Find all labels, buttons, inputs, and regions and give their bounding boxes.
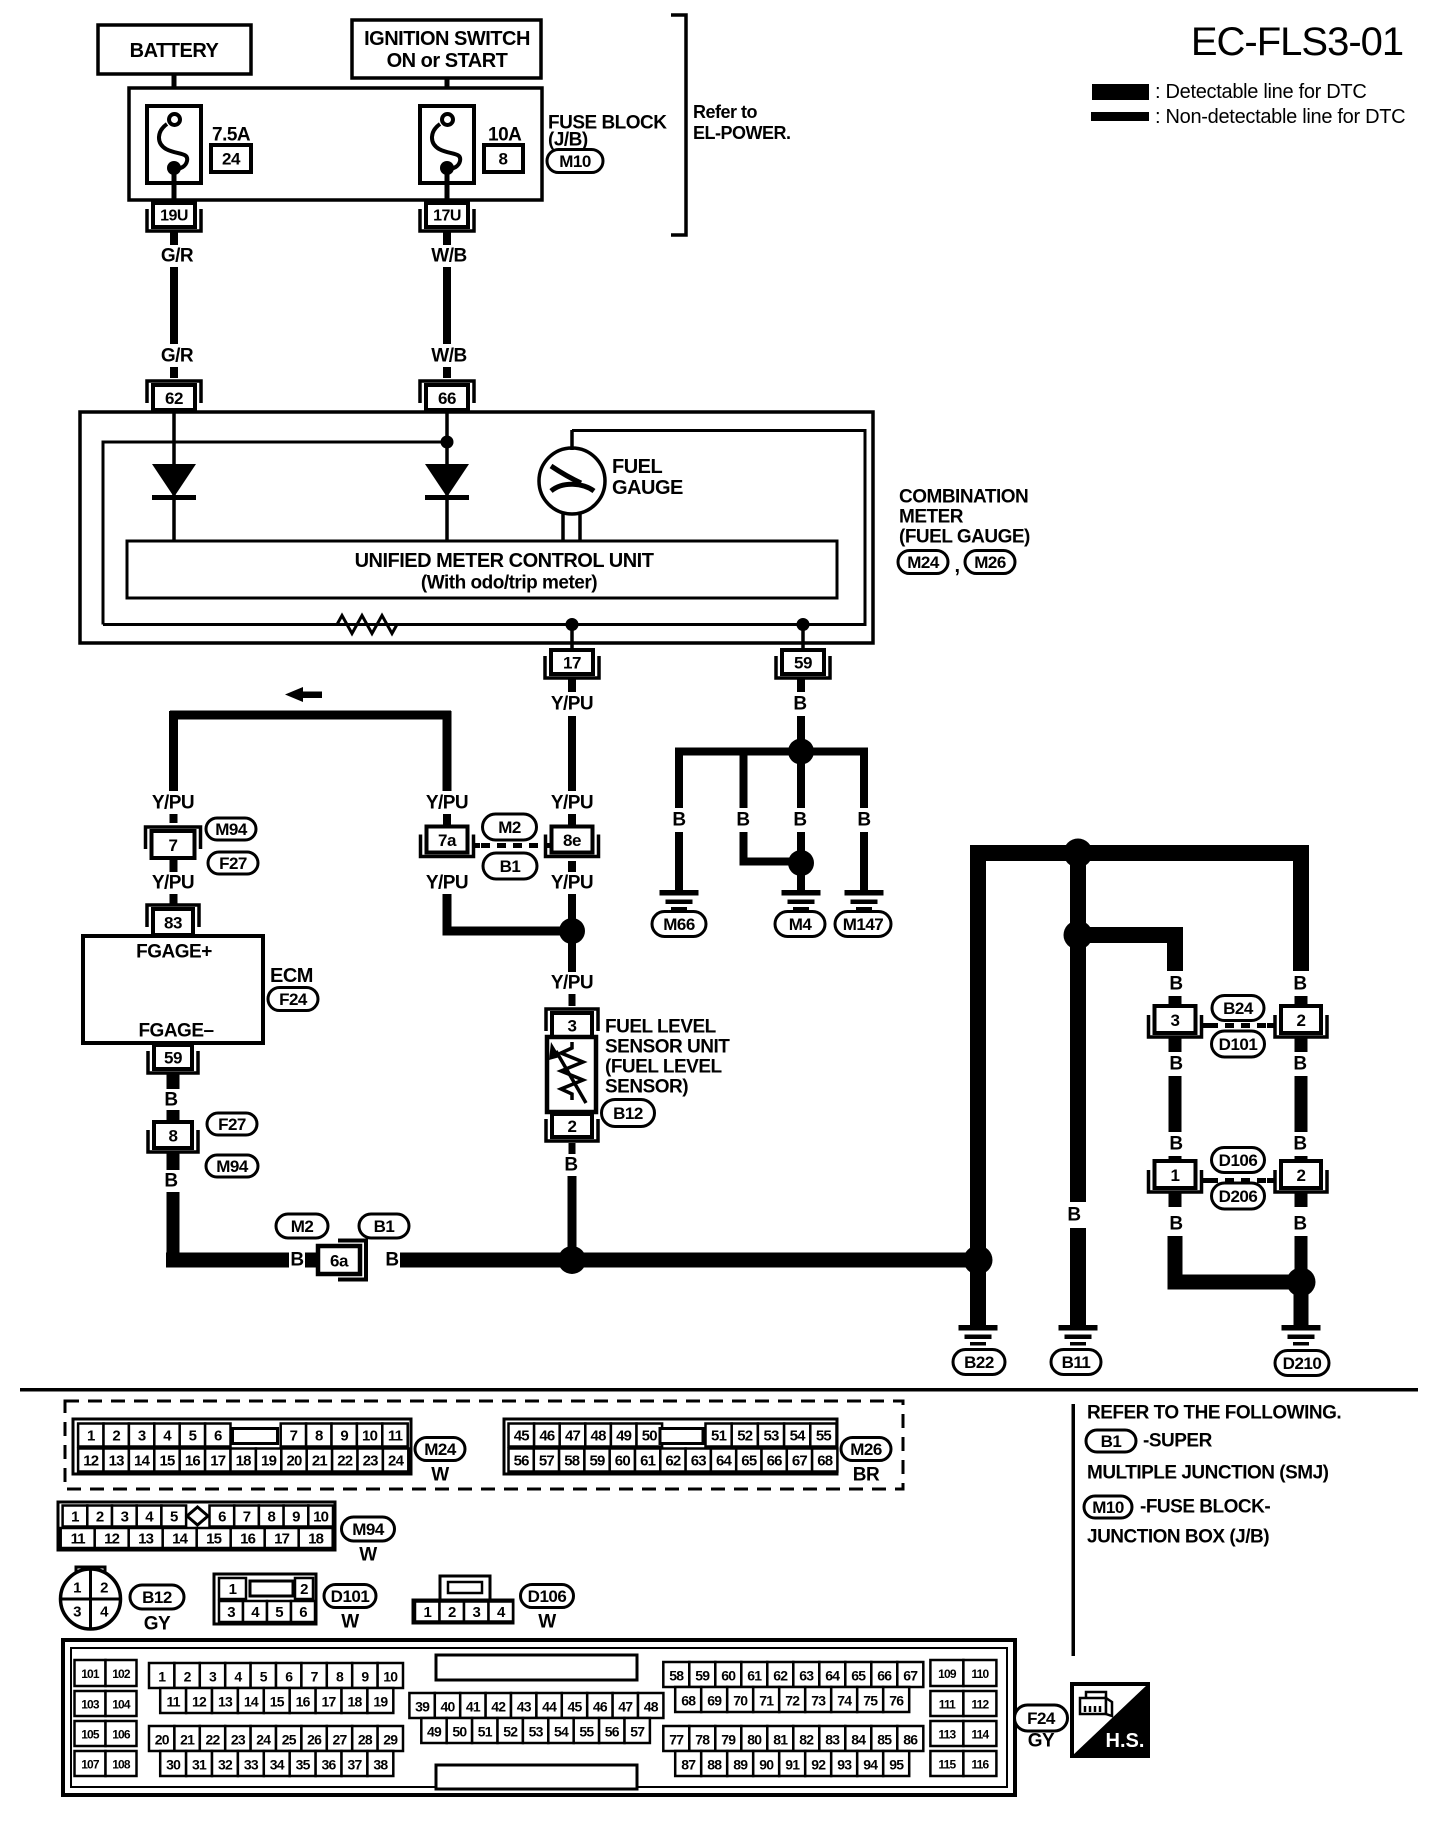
svg-text:18: 18 (308, 1531, 324, 1548)
svg-text:43: 43 (517, 1699, 532, 1715)
svg-text:M94: M94 (352, 1520, 385, 1539)
tab 3 to dashed (1202, 1023, 1209, 1028)
wire to pin 17 (570, 624, 574, 650)
svg-text:GY: GY (1028, 1731, 1055, 1752)
connector 19U (147, 209, 201, 231)
svg-text:75: 75 (863, 1693, 878, 1709)
svg-text:REFER TO THE FOLLOWING.: REFER TO THE FOLLOWING. (1087, 1403, 1341, 1424)
wire W/B to 66 (443, 367, 451, 378)
svg-text:60: 60 (721, 1668, 736, 1684)
pill M24 view (415, 1438, 465, 1461)
pin row 68-76 (675, 1687, 701, 1712)
svg-text:55: 55 (579, 1724, 594, 1740)
svg-text:B: B (1293, 974, 1306, 995)
svg-text:11: 11 (71, 1531, 86, 1548)
pill M94 view (342, 1517, 395, 1541)
svg-text:1: 1 (158, 1669, 166, 1685)
svg-text:37: 37 (347, 1757, 362, 1773)
svg-text:B: B (290, 1250, 303, 1271)
svg-text:10: 10 (313, 1509, 329, 1526)
svg-text:SENSOR): SENSOR) (605, 1077, 688, 1098)
pill M94 (conn 7) (206, 818, 256, 840)
svg-text:111: 111 (939, 1698, 956, 1712)
svg-text:16: 16 (296, 1694, 311, 1710)
diode D2 (425, 464, 469, 497)
svg-text:2: 2 (300, 1581, 308, 1598)
dashed link D106/D206 (1209, 1178, 1267, 1183)
pin row 77-86 (663, 1726, 689, 1751)
legend non-detectable line sample (1091, 112, 1149, 121)
svg-text:14: 14 (172, 1531, 189, 1548)
pin row 11-19 (160, 1688, 186, 1713)
svg-text:35: 35 (296, 1757, 311, 1773)
svg-text:33: 33 (244, 1757, 259, 1773)
pill M94 (conn 8) (206, 1155, 258, 1177)
svg-text:59: 59 (590, 1453, 606, 1470)
svg-text:8: 8 (315, 1428, 323, 1445)
svg-text:52: 52 (503, 1724, 518, 1740)
svg-text:1: 1 (229, 1581, 237, 1598)
svg-text:57: 57 (630, 1724, 645, 1740)
svg-text:Y/PU: Y/PU (551, 793, 593, 814)
svg-text:62: 62 (165, 389, 183, 408)
H.S. logo box (1072, 1684, 1148, 1756)
svg-text:107: 107 (81, 1758, 100, 1772)
fuel gauge stem (561, 512, 565, 541)
junction dot Y/PU (559, 918, 585, 944)
pill D101 view (324, 1585, 376, 1608)
svg-text:17: 17 (322, 1694, 337, 1710)
pill M66 (652, 912, 706, 937)
svg-text:IGNITION SWITCH: IGNITION SWITCH (364, 28, 530, 50)
svg-text:39: 39 (415, 1699, 430, 1715)
pill B22 (953, 1350, 1005, 1375)
svg-text:FUEL: FUEL (612, 456, 663, 478)
svg-text:41: 41 (466, 1699, 481, 1715)
svg-text:W: W (431, 1465, 449, 1486)
svg-text:B: B (164, 1171, 177, 1192)
wire down to 7a (443, 711, 452, 791)
wire 62 into meter / diode1 (172, 412, 176, 540)
svg-text:56: 56 (514, 1453, 530, 1470)
svg-text:19: 19 (261, 1453, 277, 1470)
svg-text:94: 94 (863, 1757, 878, 1773)
connector view D101 (214, 1574, 316, 1624)
svg-text:58: 58 (564, 1453, 580, 1470)
svg-text:70: 70 (733, 1693, 748, 1709)
wire battery to fuse (172, 74, 177, 114)
pill F27 (conn 7) (208, 852, 258, 874)
svg-text:B1: B1 (1101, 1432, 1122, 1451)
svg-text:13: 13 (138, 1531, 154, 1548)
wire G/R upper (170, 232, 178, 245)
svg-text:71: 71 (759, 1693, 774, 1709)
svg-text:11: 11 (388, 1428, 403, 1445)
svg-text:54: 54 (554, 1724, 569, 1740)
svg-text:B: B (793, 694, 806, 715)
connector view D106 (440, 1576, 490, 1600)
wire 59 down (797, 679, 805, 692)
svg-text:3: 3 (472, 1604, 480, 1621)
svg-text:10: 10 (383, 1669, 398, 1685)
connector 2 sensor (546, 1119, 598, 1141)
svg-text:92: 92 (811, 1757, 826, 1773)
svg-text:61: 61 (747, 1668, 762, 1684)
svg-text:59: 59 (695, 1668, 710, 1684)
svg-text:18: 18 (236, 1453, 252, 1470)
pill D210 (1275, 1351, 1329, 1376)
pill M26 (965, 551, 1015, 574)
svg-text:16: 16 (185, 1453, 201, 1470)
svg-text:-SUPER: -SUPER (1143, 1431, 1213, 1452)
svg-text:45: 45 (568, 1699, 583, 1715)
bent leg to M4 (740, 752, 748, 809)
svg-text:B11: B11 (1062, 1353, 1091, 1372)
pill D101 (1212, 1031, 1265, 1057)
wire 7 to 83 (170, 858, 178, 872)
svg-text:B: B (1169, 1054, 1182, 1075)
svg-text:5: 5 (275, 1604, 283, 1621)
svg-text:13: 13 (109, 1453, 125, 1470)
connector 3 (B24) (1149, 1015, 1202, 1037)
legend detectable line sample (1092, 84, 1149, 100)
connector 7 (146, 827, 201, 849)
svg-text:25: 25 (282, 1732, 297, 1748)
svg-text:ON or START: ON or START (387, 50, 508, 72)
svg-text:B: B (1067, 1205, 1080, 1226)
svg-text:B: B (164, 1090, 177, 1111)
wire to pin 59 (801, 624, 805, 650)
junction dot 2 (1064, 921, 1093, 950)
svg-text:B24: B24 (1223, 999, 1254, 1018)
svg-text:68: 68 (817, 1453, 833, 1470)
unified meter control unit box (127, 541, 837, 598)
svg-text:COMBINATION: COMBINATION (899, 487, 1028, 508)
svg-text:53: 53 (529, 1724, 544, 1740)
connector 2 (B24) (1275, 1015, 1327, 1037)
svg-text:3: 3 (209, 1669, 217, 1685)
svg-text:66: 66 (877, 1668, 892, 1684)
svg-text:67: 67 (903, 1668, 918, 1684)
M4 leg (797, 758, 805, 808)
refer bracket (671, 15, 686, 235)
pill M2 (6a) (276, 1214, 328, 1238)
svg-text:6a: 6a (330, 1252, 349, 1271)
connector 8e (546, 835, 599, 857)
svg-text:62: 62 (773, 1668, 788, 1684)
svg-text:B: B (385, 1250, 398, 1271)
wire W/B upper (443, 232, 451, 245)
svg-text:95: 95 (889, 1757, 904, 1773)
svg-text:B22: B22 (964, 1353, 994, 1372)
svg-text:105: 105 (81, 1728, 100, 1742)
svg-text:M26: M26 (850, 1440, 882, 1459)
wire junction down (568, 931, 576, 972)
svg-text:59: 59 (164, 1049, 182, 1068)
svg-text:F24: F24 (279, 990, 308, 1009)
svg-text:50: 50 (642, 1428, 658, 1445)
svg-text:24: 24 (222, 150, 241, 169)
wire G/R (170, 267, 178, 344)
pin row 1-10 (149, 1663, 174, 1688)
wire 8e down to junction (568, 861, 576, 872)
svg-text:M4: M4 (789, 915, 813, 934)
svg-text:17U: 17U (433, 208, 461, 225)
svg-text:46: 46 (593, 1699, 608, 1715)
svg-text:102: 102 (112, 1667, 131, 1681)
svg-text:Y/PU: Y/PU (426, 873, 468, 894)
B11 column (1070, 935, 1086, 1202)
svg-text:77: 77 (669, 1732, 684, 1748)
svg-text:44: 44 (542, 1699, 557, 1715)
svg-text:JUNCTION BOX (J/B): JUNCTION BOX (J/B) (1087, 1527, 1269, 1548)
svg-text:2: 2 (448, 1604, 456, 1621)
wire ignition to fuse (445, 78, 450, 114)
dashed box (65, 1401, 903, 1489)
connector 83 (147, 905, 199, 927)
svg-text:14: 14 (134, 1453, 151, 1470)
svg-text:17: 17 (274, 1531, 290, 1548)
svg-text:38: 38 (373, 1757, 388, 1773)
svg-text:3: 3 (568, 1017, 577, 1036)
svg-text:64: 64 (825, 1668, 840, 1684)
svg-text:63: 63 (799, 1668, 814, 1684)
svg-text:63: 63 (691, 1453, 707, 1470)
svg-text:10A: 10A (488, 125, 522, 146)
branch to 1175 (1078, 927, 1183, 943)
svg-text:6: 6 (285, 1669, 293, 1685)
tab 1 to dashed (1202, 1178, 1209, 1183)
svg-text:B: B (857, 810, 870, 831)
svg-text:D101: D101 (1219, 1035, 1258, 1054)
svg-text:2: 2 (96, 1509, 104, 1526)
svg-text:81: 81 (773, 1732, 788, 1748)
pill F27 (conn 8) (207, 1113, 257, 1135)
right top bar (970, 845, 1309, 861)
svg-text:48: 48 (591, 1428, 607, 1445)
svg-text:M10: M10 (1092, 1498, 1124, 1517)
svg-text:: Detectable line for DTC: : Detectable line for DTC (1155, 81, 1366, 103)
svg-text:51: 51 (478, 1724, 493, 1740)
svg-text:11: 11 (167, 1694, 181, 1710)
svg-text:27: 27 (333, 1732, 348, 1748)
svg-text:16: 16 (240, 1531, 256, 1548)
svg-text:3: 3 (138, 1428, 146, 1445)
svg-text:32: 32 (218, 1757, 233, 1773)
svg-text:BR: BR (853, 1465, 880, 1486)
svg-text:7a: 7a (438, 831, 457, 850)
connector 62 (147, 381, 201, 403)
svg-text:47: 47 (565, 1428, 581, 1445)
svg-text:M94: M94 (215, 820, 248, 839)
svg-text:49: 49 (616, 1428, 632, 1445)
svg-text:M66: M66 (663, 915, 695, 934)
pill M10 refer (1084, 1496, 1132, 1518)
wire G/R to 62 (170, 367, 178, 378)
svg-text:FGAGE–: FGAGE– (138, 1021, 213, 1042)
svg-text:83: 83 (164, 914, 182, 933)
svg-text:1: 1 (71, 1509, 79, 1526)
svg-text:-FUSE BLOCK-: -FUSE BLOCK- (1140, 1497, 1270, 1518)
svg-text:40: 40 (441, 1699, 456, 1715)
svg-text:EC-FLS3-01: EC-FLS3-01 (1191, 20, 1403, 64)
svg-text:30: 30 (166, 1757, 181, 1773)
svg-text:W/B: W/B (431, 246, 466, 267)
svg-text:W/B: W/B (431, 346, 466, 367)
wire down to bottom rail (167, 1192, 180, 1260)
svg-text:67: 67 (792, 1453, 808, 1470)
svg-text:17: 17 (210, 1453, 226, 1470)
M147 leg (860, 752, 868, 809)
svg-text:57: 57 (539, 1453, 555, 1470)
svg-text:116: 116 (971, 1758, 989, 1772)
svg-text:18: 18 (347, 1694, 362, 1710)
svg-text:B: B (1169, 1214, 1182, 1235)
svg-text:113: 113 (938, 1728, 956, 1742)
connector 7a (421, 835, 474, 857)
svg-text:7: 7 (290, 1428, 298, 1445)
svg-text:87: 87 (681, 1757, 696, 1773)
svg-text:H.S.: H.S. (1106, 1730, 1145, 1752)
svg-text:58: 58 (669, 1668, 684, 1684)
svg-text:B: B (1169, 1134, 1182, 1155)
svg-text:1: 1 (423, 1604, 431, 1621)
svg-text:19U: 19U (160, 208, 188, 225)
svg-text:Refer to: Refer to (693, 102, 758, 122)
svg-text:2: 2 (568, 1117, 577, 1136)
svg-text:B1: B1 (374, 1217, 395, 1236)
variable resistor zigzag (561, 1042, 583, 1100)
svg-text:G/R: G/R (161, 346, 194, 367)
wire 17 to 8e (568, 679, 576, 692)
svg-text:(With odo/trip meter): (With odo/trip meter) (421, 573, 597, 594)
svg-text:21: 21 (312, 1453, 328, 1470)
svg-text:2: 2 (184, 1669, 192, 1685)
fuel gauge stem wire top (570, 430, 574, 450)
svg-text:ECM: ECM (270, 965, 313, 987)
direction arrow (285, 687, 303, 702)
svg-text:34: 34 (270, 1757, 285, 1773)
svg-text:51: 51 (711, 1428, 727, 1445)
svg-text:(FUEL GAUGE): (FUEL GAUGE) (899, 527, 1030, 548)
connector 59 ECM (148, 1051, 198, 1073)
svg-text:74: 74 (837, 1693, 852, 1709)
M66 ground (660, 890, 699, 896)
svg-text:D106: D106 (1219, 1151, 1258, 1170)
svg-text:D206: D206 (1219, 1187, 1258, 1206)
svg-text:45: 45 (514, 1428, 530, 1445)
svg-text:85: 85 (877, 1732, 892, 1748)
svg-text:108: 108 (112, 1758, 131, 1772)
pill M10 (547, 150, 603, 173)
svg-text:88: 88 (707, 1757, 722, 1773)
svg-text:M10: M10 (559, 152, 591, 171)
junction dot 59/gnd bar (788, 739, 814, 765)
below 1 (1169, 1192, 1182, 1207)
svg-text:F27: F27 (219, 854, 247, 873)
F24 connector outer box (63, 1640, 1015, 1795)
svg-text:103: 103 (81, 1698, 100, 1712)
svg-text:W: W (341, 1612, 359, 1633)
svg-text:23: 23 (363, 1453, 379, 1470)
svg-text:112: 112 (971, 1698, 989, 1712)
svg-text:23: 23 (231, 1732, 246, 1748)
M4 ground (782, 890, 821, 896)
svg-text:B: B (1293, 1134, 1306, 1155)
tab 2b from dashed (1267, 1178, 1274, 1183)
pill B1 (483, 853, 537, 879)
connector 6a (338, 1241, 366, 1280)
svg-text:84: 84 (851, 1732, 866, 1748)
svg-text:3: 3 (121, 1509, 129, 1526)
key slot top (436, 1655, 637, 1680)
svg-text:110: 110 (971, 1667, 989, 1681)
wire corner 7a to junction (443, 927, 573, 936)
svg-text:6: 6 (214, 1428, 222, 1445)
connector 1 (D106) (1149, 1170, 1202, 1192)
drop between junctions (1070, 853, 1086, 935)
svg-text:M24: M24 (907, 553, 940, 572)
fuse 24 box (211, 145, 251, 172)
pill M2 (483, 814, 537, 840)
svg-text:56: 56 (605, 1724, 620, 1740)
fuel gauge needle (551, 466, 581, 483)
svg-text:49: 49 (427, 1724, 442, 1740)
svg-text:2: 2 (1297, 1011, 1306, 1030)
pin row 20-29 (149, 1726, 174, 1751)
svg-text:6: 6 (218, 1509, 226, 1526)
svg-text:EL-POWER.: EL-POWER. (693, 123, 791, 143)
svg-text:9: 9 (361, 1669, 369, 1685)
fuel level sensor box (547, 1037, 596, 1112)
svg-text:8: 8 (336, 1669, 344, 1685)
pill B1 (6a) (359, 1214, 409, 1238)
pill B12 (602, 1100, 655, 1127)
svg-text:24: 24 (388, 1453, 405, 1470)
svg-text:47: 47 (618, 1699, 633, 1715)
svg-text:B: B (793, 810, 806, 831)
svg-text:76: 76 (889, 1693, 904, 1709)
pill D106 (1212, 1148, 1265, 1173)
wire W/B (443, 267, 451, 344)
svg-text:8: 8 (267, 1509, 275, 1526)
svg-text:FUEL LEVEL: FUEL LEVEL (605, 1017, 717, 1038)
svg-text:14: 14 (244, 1694, 259, 1710)
pin row 87-95 (675, 1751, 701, 1776)
svg-text:MULTIPLE JUNCTION (SMJ): MULTIPLE JUNCTION (SMJ) (1087, 1463, 1329, 1484)
elbow 1175 to D210 (1175, 1236, 1295, 1282)
connector 3 sensor (546, 1009, 598, 1031)
svg-text:59: 59 (794, 654, 812, 673)
svg-text:91: 91 (785, 1757, 800, 1773)
svg-text:BATTERY: BATTERY (130, 40, 220, 62)
ground bar M66-M147 (675, 748, 868, 756)
svg-text:UNIFIED METER CONTROL UNIT: UNIFIED METER CONTROL UNIT (355, 550, 654, 572)
svg-text:Y/PU: Y/PU (426, 793, 468, 814)
svg-text:61: 61 (640, 1453, 656, 1470)
svg-text:B: B (564, 1155, 577, 1176)
svg-text:,: , (954, 555, 959, 577)
svg-text:D210: D210 (1283, 1354, 1322, 1373)
pill M24 (898, 551, 948, 574)
svg-text:4: 4 (234, 1669, 242, 1685)
svg-text:52: 52 (737, 1428, 753, 1445)
junction dot pin17 (566, 618, 579, 631)
wire fuse2 to 17U (445, 174, 450, 203)
junction dot rail/sensor (558, 1246, 586, 1274)
svg-text:5: 5 (260, 1669, 268, 1685)
svg-text:50: 50 (452, 1724, 467, 1740)
